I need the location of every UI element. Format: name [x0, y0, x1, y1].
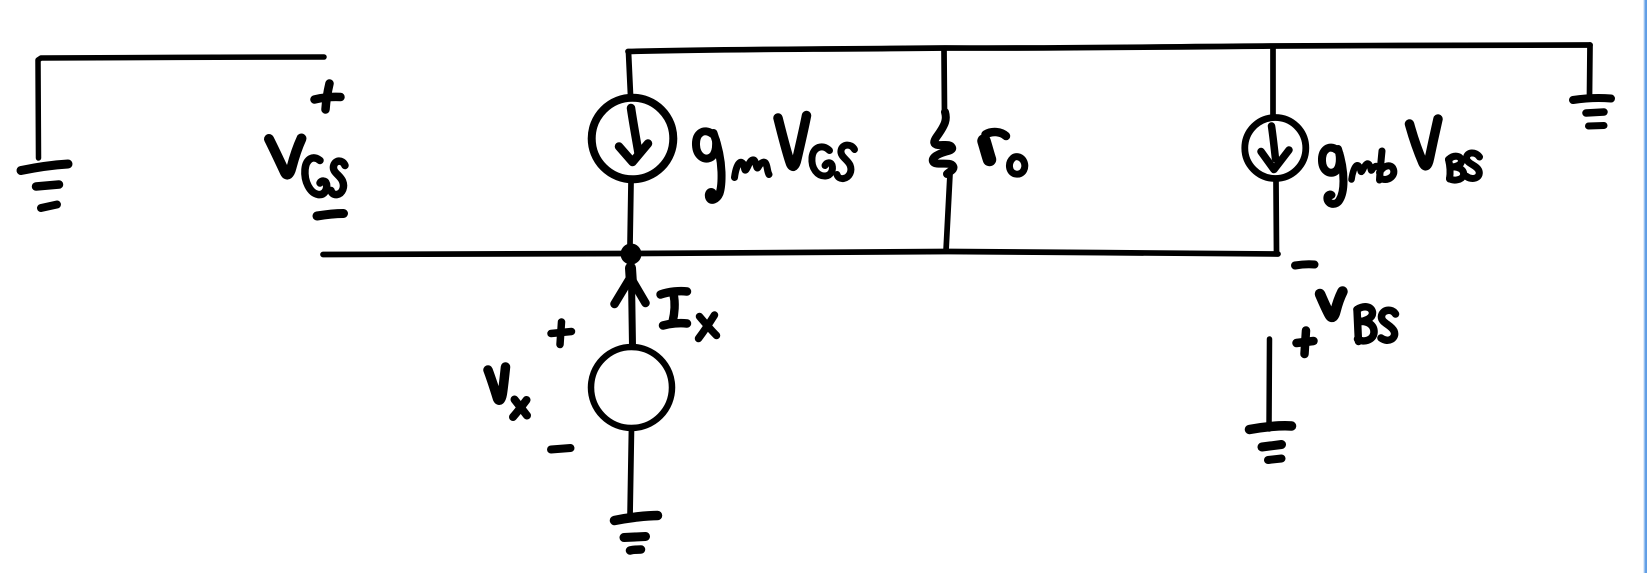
wire top rail to current source U2 [1270, 47, 1276, 115]
wire top drain rail [628, 45, 1590, 52]
label gm VGS : S subscript [837, 145, 855, 178]
ground GND1 (gate) [21, 164, 68, 208]
ground GND2 (top right) [1573, 98, 1611, 126]
current source U1 arrow [619, 108, 648, 162]
label gm VGS : G subscript [812, 147, 833, 176]
wire source V1 to ground GND4 [630, 428, 632, 517]
label vx : v [488, 367, 506, 400]
label Ix : x subscript [699, 315, 717, 339]
label vx : x subscript [513, 400, 527, 418]
label gmb VBS : m subscript [1352, 164, 1379, 180]
label VBS minus sign [1295, 264, 1315, 265]
wire top rail to current source U1 [629, 52, 631, 95]
source V1 (vx) circle [591, 347, 672, 428]
label gmb VBS : g [1322, 148, 1344, 204]
label gmb VBS : S subscript [1466, 153, 1480, 179]
resistor R1 (ro) zigzag [933, 112, 954, 174]
arrow Ix stem [632, 280, 633, 346]
label VBS : V [1320, 292, 1343, 317]
label VBS plus sign [1297, 331, 1314, 355]
label Ix : I [661, 291, 688, 325]
label VBS : S subscript [1381, 310, 1396, 340]
label gm VGS : g [696, 131, 722, 200]
label VBS : B subscript [1357, 307, 1374, 342]
wire current source U2 to node rail [1273, 181, 1279, 252]
label VGS minus sign [317, 214, 344, 217]
node X junction dot [621, 244, 642, 265]
label gmb VBS : B subscript [1449, 156, 1464, 180]
wire current source U1 to node X [630, 183, 631, 245]
current source U2 arrow [1261, 126, 1289, 170]
wire top rail to resistor R1 [941, 49, 947, 115]
label vx plus sign [551, 322, 572, 345]
label VGS plus sign [315, 84, 341, 110]
label gm VGS : m subscript [735, 160, 770, 178]
current source U2 (gmb VBS) circle [1245, 118, 1306, 179]
label ro : r [984, 132, 1006, 160]
wire body node to ground GND3 [1266, 339, 1272, 429]
label gm VGS : V [778, 116, 807, 167]
wire bottom node rail (node X) [323, 252, 1278, 255]
wire top rail to ground GND2 [1587, 45, 1593, 95]
label VGS [269, 139, 345, 195]
wire gate-to-ground L segment [38, 57, 324, 158]
label ro : o subscript [1009, 157, 1024, 174]
current source U1 (gm VGS) circle [592, 98, 674, 180]
wire resistor R1 to node rail [946, 174, 950, 251]
arrow Ix head [615, 268, 646, 304]
ground GND4 (below vx) [615, 516, 658, 551]
label gmb VBS : V [1410, 119, 1439, 166]
ground GND3 (body) [1250, 426, 1292, 460]
label gmb VBS : b subscript [1380, 151, 1394, 180]
page edge stripe [1643, 0, 1647, 573]
label vx minus sign [551, 448, 571, 450]
